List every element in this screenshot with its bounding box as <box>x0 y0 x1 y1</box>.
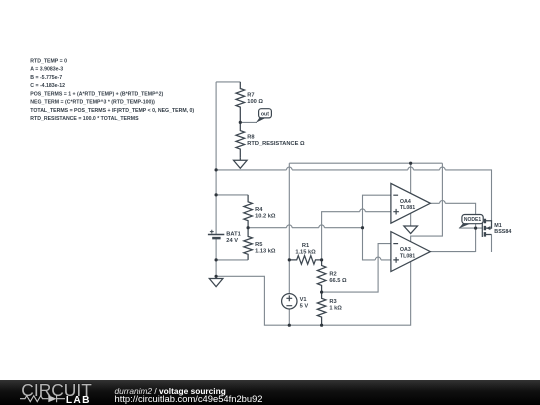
svg-text:LAB: LAB <box>66 395 91 405</box>
transistor M1 BSS84 <box>482 218 491 237</box>
svg-text:R4: R4 <box>255 207 263 213</box>
svg-text:66.5 Ω: 66.5 Ω <box>329 278 347 284</box>
svg-text:1.15 kΩ: 1.15 kΩ <box>295 249 316 255</box>
svg-text:R1: R1 <box>302 243 309 249</box>
svg-text:C = -4.183e-12: C = -4.183e-12 <box>30 83 65 89</box>
label BAT1 24 V <box>226 231 240 244</box>
svg-text:TL081: TL081 <box>400 205 415 211</box>
svg-text:R8: R8 <box>247 134 254 140</box>
svg-text:BAT1: BAT1 <box>226 231 240 237</box>
svg-text:http://circuitlab.com/c49e54fn: http://circuitlab.com/c49e54fn2bu92 <box>115 393 263 404</box>
resistor R2 <box>317 260 326 292</box>
svg-text:10.2 kΩ: 10.2 kΩ <box>255 213 276 219</box>
resistor R3 <box>317 292 326 325</box>
svg-text:1.13 kΩ: 1.13 kΩ <box>255 248 276 254</box>
wire top rail to R7 <box>216 81 240 83</box>
wire R5 bottom to battery- <box>216 259 248 261</box>
wire OA4 output to gate riser with hop <box>430 203 475 252</box>
wire OA3 output <box>430 251 475 253</box>
svg-text:RTD_TEMP = 0: RTD_TEMP = 0 <box>30 58 67 64</box>
label R7 100 <box>247 92 263 105</box>
svg-text:24 V: 24 V <box>226 238 238 244</box>
svg-text:100 Ω: 100 Ω <box>247 99 263 105</box>
label V1 5 V <box>300 297 309 310</box>
svg-text:A = 3.9083e-3: A = 3.9083e-3 <box>30 67 63 73</box>
svg-text:NODE1: NODE1 <box>464 217 481 223</box>
wire left rail lower <box>215 238 217 276</box>
wire battery+ to R4 <box>216 194 248 196</box>
wire OA4- / OA3+ tee net <box>363 195 391 260</box>
label M1 BSS84 <box>494 223 511 235</box>
hop feedback over 5V riser <box>287 225 293 228</box>
hop OA3+ wire over OA3- riser <box>375 257 381 260</box>
resistor R4 <box>244 195 253 228</box>
svg-text:M1: M1 <box>494 223 502 229</box>
footer bar <box>0 380 540 405</box>
svg-text:NEG_TERM = (C*RTD_TEMP^3 * (RT: NEG_TERM = (C*RTD_TEMP^3 * (RTD_TEMP-100… <box>30 100 155 106</box>
label R4 10.2 k <box>255 207 276 220</box>
hop rail over OA4 V+ riser <box>408 167 414 170</box>
svg-text:5 V: 5 V <box>300 303 309 309</box>
hop OA4 output over OA3 V+ riser <box>440 201 446 204</box>
svg-text:OA3: OA3 <box>400 247 411 253</box>
wire M1 drain down <box>491 235 493 253</box>
wire ground row, bottom rail, OA3 V- riser <box>216 262 411 326</box>
ground at left rail <box>209 276 223 286</box>
svg-text:BSS84: BSS84 <box>494 229 511 235</box>
wire OA4+ net from R1/R2 junction <box>322 212 391 260</box>
label OA3 TL081 <box>400 247 415 259</box>
svg-text:TL081: TL081 <box>400 254 415 260</box>
resistor R5 <box>244 228 253 260</box>
wire OA4 V- pin to ground <box>410 213 412 226</box>
voltage source V1 <box>282 294 297 309</box>
flag NODE1 <box>459 215 483 229</box>
wire OA3 V+ jog to 5V line <box>411 163 443 241</box>
hop feedback over OA4+ riser <box>319 225 325 228</box>
label R2 66.5 <box>329 271 347 284</box>
op-amp OA3 <box>391 232 430 272</box>
svg-text:out: out <box>261 111 269 117</box>
wire +24V rail with hops <box>216 170 491 221</box>
label R5 1.13 k <box>255 242 276 255</box>
CircuitLab logo <box>20 380 92 405</box>
op-amp OA4 <box>391 183 430 223</box>
svg-text:B = -5.775e-7: B = -5.775e-7 <box>30 75 62 81</box>
wire OA3- net from R2/R3 junction <box>322 244 391 293</box>
svg-text:RTD_RESISTANCE Ω: RTD_RESISTANCE Ω <box>247 141 305 147</box>
label R3 1 k <box>329 299 342 312</box>
svg-text:R3: R3 <box>329 299 336 305</box>
svg-text:V1: V1 <box>300 297 307 303</box>
wire M1 gate lead <box>459 227 482 229</box>
resistor R1 <box>289 256 321 265</box>
wire 5V riser and 5V line <box>289 163 442 293</box>
label R8 RTD_RESISTANCE <box>247 134 305 147</box>
junction dots <box>215 121 478 327</box>
svg-text:OA4: OA4 <box>400 199 411 205</box>
flag out <box>256 109 271 123</box>
wire feedback row with hops <box>248 227 362 229</box>
ground below R8 <box>234 157 248 168</box>
svg-text:R2: R2 <box>329 271 336 277</box>
hop rail over 5V riser <box>287 167 293 170</box>
resistor R7 <box>236 82 245 123</box>
wire OA4 V+ pin riser <box>410 163 412 193</box>
svg-text:1 kΩ: 1 kΩ <box>329 305 342 311</box>
svg-text:R7: R7 <box>247 92 254 98</box>
wire left rail upper <box>215 82 217 235</box>
svg-text:R5: R5 <box>255 242 262 248</box>
wire out tap <box>240 121 257 123</box>
label R1 1.15 k <box>295 243 316 256</box>
footer title line <box>115 386 263 404</box>
ground below OA4 <box>404 226 418 234</box>
svg-text:POS_TERMS = 1 + (A*RTD_TEMP) +: POS_TERMS = 1 + (A*RTD_TEMP) + (B*RTD_TE… <box>30 91 163 97</box>
resistor R8 <box>236 122 245 157</box>
battery BAT1 <box>208 230 224 238</box>
wire V1- lead <box>288 309 290 325</box>
svg-text:TOTAL_TERMS = POS_TERMS + IF(R: TOTAL_TERMS = POS_TERMS + IF(RTD_TEMP < … <box>30 108 194 114</box>
node equations text block <box>30 58 194 122</box>
hop rail over OA3 V+ riser <box>440 167 446 170</box>
hop OA4+ wire over OA4- riser <box>360 209 366 212</box>
svg-text:RTD_RESISTANCE = 100.0 * TOTAL: RTD_RESISTANCE = 100.0 * TOTAL_TERMS <box>30 116 139 122</box>
label OA4 TL081 <box>400 199 415 211</box>
